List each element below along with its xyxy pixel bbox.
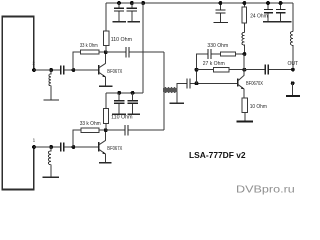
capacitor C5 [219,3,221,22]
svg-text:2: 2 [32,61,35,66]
ground [263,21,291,23]
svg-text:33 k Ohm: 33 k Ohm [80,43,98,49]
node: collector out junction [242,68,246,72]
capacitor C3 [118,3,120,22]
capacitor C2 coupling [106,51,164,53]
ground [112,113,140,115]
wire: mid feed row [106,92,143,94]
capacitor C9 [132,93,134,114]
ground [99,162,111,164]
junction [141,1,145,5]
wire: Q3 emitter [243,89,245,98]
wire: base feed [190,82,237,84]
resistor R7 27k [197,69,245,71]
input loop antenna [2,17,34,190]
junction [131,91,135,95]
wire: transformer left lead [163,52,165,130]
junction [242,1,246,5]
node: collector top junction [242,52,246,56]
inductor L3 [242,32,244,54]
node B [195,81,199,85]
ground [43,99,59,101]
capacitor C4 [131,3,133,22]
svg-text:BF067X: BF067X [107,69,122,75]
resistor R8 10 Ohm [242,98,247,112]
ground [286,95,300,97]
node OUT ground pin [291,81,295,85]
node: Q1 collector junction [104,50,108,54]
svg-text:24 Ohm: 24 Ohm [250,13,268,19]
junction [279,1,283,5]
wire: top supply rail [106,2,293,4]
resistor R1 33k [73,52,106,70]
wire: transformer right lead up [177,83,187,88]
node OUT [291,68,295,72]
transistor Q2 BF067X [98,142,100,152]
wire: transformer right lead down [176,92,178,103]
ground [170,102,184,104]
inductor L2 [48,147,51,177]
resistor R5 24 Ohm [243,3,245,32]
wire: Q2 emitter [105,154,107,162]
ground [213,22,228,24]
capacitor C8 [118,93,120,114]
svg-text:27 k Ohm: 27 k Ohm [203,61,225,67]
node: Q2 collector junction [104,128,108,132]
wire: supply rail drop [142,3,144,93]
wire: output row [244,69,293,71]
svg-text:33 k Ohm: 33 k Ohm [80,121,101,127]
svg-text:1: 1 [33,138,36,143]
junction [130,1,134,5]
junction [71,68,75,72]
junction [49,145,53,149]
capacitor C1 [61,66,64,75]
junction [218,1,222,5]
wire: output rail [292,3,294,31]
resistor R4 110 Ohm [105,93,107,130]
junction [117,91,121,95]
resistor R2 110 Ohm [105,3,107,52]
resistor R3 33k [73,130,106,147]
svg-text:10 Ohm: 10 Ohm [250,104,267,110]
wire: Q2 collector [105,130,107,140]
wire: Q1 emitter [105,77,107,86]
ground [43,176,60,178]
wire: Q3 collector [243,54,245,75]
transformer T1 [163,87,177,93]
inductor L1 [49,70,51,100]
wire: lower input row [34,146,99,148]
wire [292,83,294,95]
capacitor C14 [265,65,268,75]
ground [236,121,253,123]
transistor Q3 BF0670X [237,78,239,86]
svg-text:LSA-777DF v2: LSA-777DF v2 [189,151,246,160]
resistor R6 330 Ohm [212,53,245,55]
junction [71,145,75,149]
wire: upper input row [34,69,99,71]
node 2 [32,68,36,72]
ground [128,21,141,23]
junction [266,1,270,5]
svg-text:BF067X: BF067X [107,146,122,152]
junction [49,68,53,72]
svg-text:330 Ohm: 330 Ohm [207,43,228,49]
capacitor C11 coupling [106,129,164,131]
capacitor C10 [61,143,64,152]
ground [113,21,127,23]
svg-text:110 Ohm: 110 Ohm [111,37,132,43]
ground [99,85,113,87]
inductor L4 [290,31,293,69]
capacitor C6 [267,3,269,22]
junction [117,1,121,5]
wire: Q1 collector [105,52,107,63]
capacitor C13 [208,49,211,59]
capacitor C7 [280,3,282,22]
capacitor C12 [187,78,190,88]
svg-text:DVBpro.ru: DVBpro.ru [236,184,295,196]
svg-text:OUT: OUT [288,61,299,67]
svg-text:BF0670X: BF0670X [246,81,263,87]
node A [195,68,199,72]
svg-text:110 Ohm: 110 Ohm [111,114,132,120]
wire: right stage left rail [197,54,208,83]
transistor Q1 BF067X [98,65,100,75]
node 1 [32,145,36,149]
